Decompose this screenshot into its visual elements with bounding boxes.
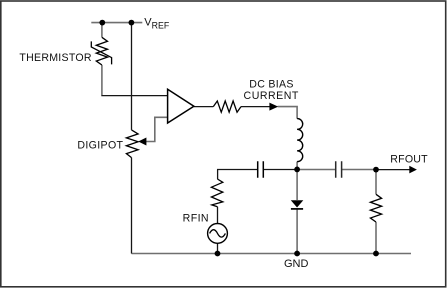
svg-text:GND: GND <box>284 258 309 270</box>
svg-text:CURRENT: CURRENT <box>244 90 299 102</box>
svg-text:RFOUT: RFOUT <box>390 153 428 165</box>
svg-text:REF: REF <box>152 21 170 31</box>
svg-text:THERMISTOR: THERMISTOR <box>19 52 91 64</box>
svg-text:RFIN: RFIN <box>183 212 209 224</box>
svg-text:DC BIAS: DC BIAS <box>249 78 294 90</box>
svg-text:DIGIPOT: DIGIPOT <box>77 140 123 152</box>
